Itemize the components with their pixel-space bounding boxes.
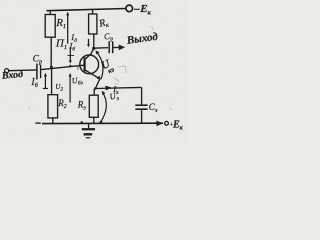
current arrow Ik bbox=[88, 39, 90, 46]
wire Rk bottom lead bbox=[93, 34, 95, 48]
transistor Q1 base bar bbox=[83, 57, 85, 71]
noise speck base wire bbox=[77, 67, 80, 71]
wire Ce bottom lead bbox=[141, 110, 143, 123]
current arrow Ie on wire bbox=[105, 86, 112, 91]
voltage arrow Uke arc bbox=[97, 52, 103, 80]
wire base segment bbox=[41, 65, 84, 69]
wire bottom rail bbox=[42, 122, 163, 124]
wire R1 top lead bbox=[49, 11, 51, 15]
voltage arrow Ue arc bbox=[101, 92, 107, 122]
wire emitter horizontal segment bbox=[95, 87, 141, 88]
wire Rk top lead bbox=[92, 9, 94, 14]
transistor Q1 collector lead bbox=[86, 48, 94, 59]
voltage arrow Ube up bbox=[69, 75, 71, 103]
current arrow Id up beside R1 bbox=[67, 14, 69, 44]
node output terminal -Ek bbox=[126, 5, 133, 12]
paper background bbox=[0, 0, 189, 145]
wire Re bottom lead bbox=[93, 117, 95, 123]
node collector junction bbox=[92, 47, 95, 50]
resistor Re bbox=[89, 95, 98, 117]
current arrow Ib input up bbox=[44, 75, 46, 89]
capacitor Cp input left plate bbox=[36, 64, 38, 80]
wire input segment bbox=[9, 69, 36, 72]
capacitor Cp output left plate bbox=[108, 41, 110, 53]
capacitor Ce bottom plate bbox=[135, 108, 147, 110]
resistor R1 bbox=[45, 15, 55, 38]
node input terminal bbox=[5, 69, 9, 73]
capacitor Cp input right plate bbox=[40, 65, 42, 79]
noise smudge right of transistor bbox=[118, 66, 127, 73]
output arrow bbox=[114, 46, 120, 48]
ground bbox=[82, 124, 95, 138]
wire emitter down segment bbox=[95, 79, 99, 89]
node Ib arrow junction bbox=[69, 65, 71, 67]
node bottom terminal +Ek bbox=[165, 121, 169, 125]
wire stray dash left of rail bbox=[35, 122, 40, 124]
wire top rail bbox=[47, 9, 126, 11]
wire tick near Ib label bbox=[68, 54, 75, 56]
resistor Rk bbox=[89, 14, 97, 34]
wire R2 top lead bbox=[51, 67, 53, 95]
node emitter junction bbox=[94, 87, 97, 90]
node rail blob bbox=[81, 121, 83, 123]
capacitor Ce top plate bbox=[135, 104, 147, 106]
node Ue arc foot bbox=[100, 121, 103, 124]
wire R1 bottom lead bbox=[50, 37, 52, 67]
capacitor Cp output right plate bbox=[112, 41, 114, 53]
resistor R2 bbox=[48, 95, 58, 118]
current arrow Ib down toward base wire bbox=[69, 47, 71, 62]
transistor Q1 circle bbox=[80, 55, 99, 74]
wire collector output segment bbox=[94, 47, 108, 50]
current arrow on rail to +Ek bbox=[156, 121, 163, 127]
node divider junction bbox=[50, 66, 53, 69]
transistor Q1 emitter lead bbox=[86, 70, 100, 79]
wire R2 bottom lead bbox=[52, 118, 54, 124]
wire Re top lead bbox=[93, 89, 95, 96]
wire Ce top lead bbox=[141, 87, 143, 104]
noise specks bbox=[152, 26, 154, 30]
